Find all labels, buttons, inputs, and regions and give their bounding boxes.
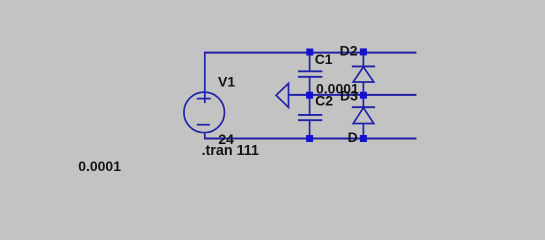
svg-text:V1: V1 <box>218 73 235 89</box>
node junction D2/D3 mid <box>360 92 367 99</box>
node junction C1 top <box>306 49 313 56</box>
wire V1 top lead <box>204 52 206 103</box>
wire middle rail <box>289 94 417 96</box>
svg-text:0.0001: 0.0001 <box>78 158 121 174</box>
node junction C2 bottom <box>306 135 313 142</box>
node junction D2 top <box>360 48 367 55</box>
svg-text:D3: D3 <box>340 88 358 104</box>
svg-text:.tran 111: .tran 111 <box>202 143 260 159</box>
voltage source V1 <box>184 92 225 133</box>
svg-text:D2: D2 <box>340 43 358 59</box>
diode D3 <box>352 95 375 138</box>
diode D2 <box>352 52 375 95</box>
capacitor C1 <box>298 52 322 95</box>
node junction D3 bottom <box>360 135 367 142</box>
svg-text:D: D <box>348 129 358 145</box>
wire top rail <box>205 52 417 54</box>
wire V1 bottom lead <box>204 133 206 139</box>
wire bottom rail <box>205 138 417 140</box>
svg-text:C1: C1 <box>315 51 333 67</box>
node junction C1/C2 mid <box>306 92 313 99</box>
capacitor C2 <box>298 95 322 138</box>
port arrow (input marker) <box>276 83 288 107</box>
